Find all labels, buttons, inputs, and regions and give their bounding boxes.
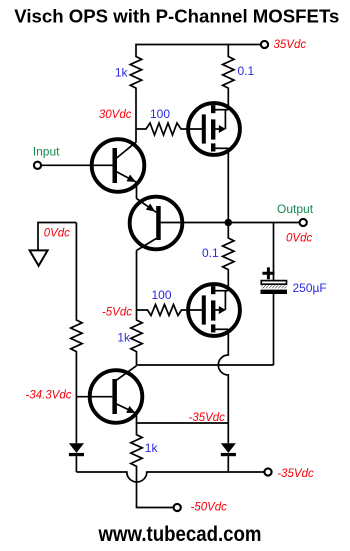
svg-text:1k: 1k <box>145 441 159 455</box>
resistor 0.1 lower (vertical below output node) <box>223 223 234 291</box>
wire bottom -35Vdc row with hop over 1k wire <box>76 472 263 482</box>
svg-text:www.tubecad.com: www.tubecad.com <box>98 523 262 546</box>
svg-text:-5Vdc: -5Vdc <box>102 306 132 318</box>
svg-text:0.1: 0.1 <box>238 64 255 78</box>
wire input lead <box>42 164 113 166</box>
svg-text:-35Vdc: -35Vdc <box>189 412 226 424</box>
wire output node to terminal <box>228 222 299 224</box>
terminal Input <box>34 162 41 169</box>
resistor 1k top (left, vertical) <box>130 44 141 142</box>
terminal 35Vdc <box>261 41 268 48</box>
resistor left unlabeled (vertical, x=76) <box>71 223 82 444</box>
capacitor 250uF electrolytic <box>261 267 288 294</box>
svg-text:100: 100 <box>150 107 170 121</box>
wire Q2 collector down + resistor 1k middle <box>131 251 142 366</box>
svg-text:1k: 1k <box>117 331 131 345</box>
svg-text:1k: 1k <box>115 66 129 80</box>
wire M2 drain down with hop over cap wire <box>218 329 228 443</box>
mosfet M2 lower P-channel <box>188 284 240 336</box>
svg-text:-35Vdc: -35Vdc <box>277 468 314 480</box>
svg-text:Visch OPS with P-Channel MOSFE: Visch OPS with P-Channel MOSFETs <box>14 7 339 27</box>
wire 0Vdc branch horizontal <box>38 222 76 224</box>
wire Q3 base lead <box>76 396 112 398</box>
diode D2 right <box>221 443 236 472</box>
junction dot output node <box>225 219 233 227</box>
terminal -35Vdc <box>264 468 271 475</box>
ground symbol <box>30 250 48 265</box>
transistor Q2 middle PNP <box>130 197 183 251</box>
svg-text:-34.3Vdc: -34.3Vdc <box>25 390 71 402</box>
resistor 1k bottom + wire to -50Vdc <box>131 423 173 508</box>
terminal Output <box>300 219 307 226</box>
svg-text:100: 100 <box>152 288 172 302</box>
capacitor wire top <box>273 223 275 281</box>
svg-text:35Vdc: 35Vdc <box>274 39 307 51</box>
wire top rail 35Vdc <box>136 44 260 46</box>
svg-text:250µF: 250µF <box>293 281 327 295</box>
diode D1 left <box>69 443 84 472</box>
wire Q3 emitter down to -35V row <box>136 414 138 424</box>
resistor 100 upper (horizontal, to M1 gate) <box>136 123 202 135</box>
wire Q2 base to output node <box>158 222 228 224</box>
svg-text:30Vdc: 30Vdc <box>99 109 132 121</box>
terminal -50Vdc <box>174 504 181 511</box>
svg-text:0Vdc: 0Vdc <box>286 232 312 244</box>
svg-text:0Vdc: 0Vdc <box>44 227 70 239</box>
wire M1 drain to output node <box>227 148 229 222</box>
wire ground stem <box>37 222 39 250</box>
wire 1k-mid bottom across to capacitor <box>137 364 274 366</box>
transistor Q1 input NPN <box>92 139 145 192</box>
transistor Q3 bottom NPN <box>90 366 143 423</box>
svg-text:0.1: 0.1 <box>202 246 219 260</box>
svg-text:-50Vdc: -50Vdc <box>191 502 228 514</box>
wire Q1 emitter to Q2 emitter <box>136 182 138 198</box>
mosfet M1 upper P-channel <box>188 103 240 155</box>
resistor 0.1 top (right, vertical) <box>223 44 234 110</box>
resistor 100 lower (horizontal, to M2 gate) <box>137 305 203 316</box>
svg-text:Output: Output <box>277 202 314 216</box>
capacitor wire bottom to -35V rail wire <box>273 294 275 365</box>
wire -35Vdc mid (Q3 emitter row) <box>137 422 229 424</box>
svg-text:Input: Input <box>33 144 60 158</box>
